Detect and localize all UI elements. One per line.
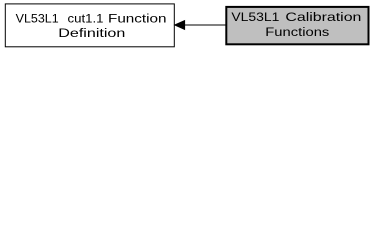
node box: VL53L1 Calibration Functions (current node, grey fill, bold border) — [226, 7, 368, 44]
svg-text:VL53L1: VL53L1 — [231, 10, 279, 24]
svg-text:cut1.1: cut1.1 — [68, 12, 104, 26]
svg-text:Functions: Functions — [265, 25, 329, 39]
wire: edge line from right node to left node — [185, 24, 226, 26]
arrowhead pointing at left node — [175, 21, 185, 30]
svg-text:Definition: Definition — [58, 26, 125, 40]
svg-text:VL53L1: VL53L1 — [16, 12, 59, 26]
svg-text:Function: Function — [108, 12, 167, 26]
svg-text:Calibration: Calibration — [285, 10, 361, 24]
node box: VL53L1 cut1.1 Function Definition — [5, 4, 174, 47]
